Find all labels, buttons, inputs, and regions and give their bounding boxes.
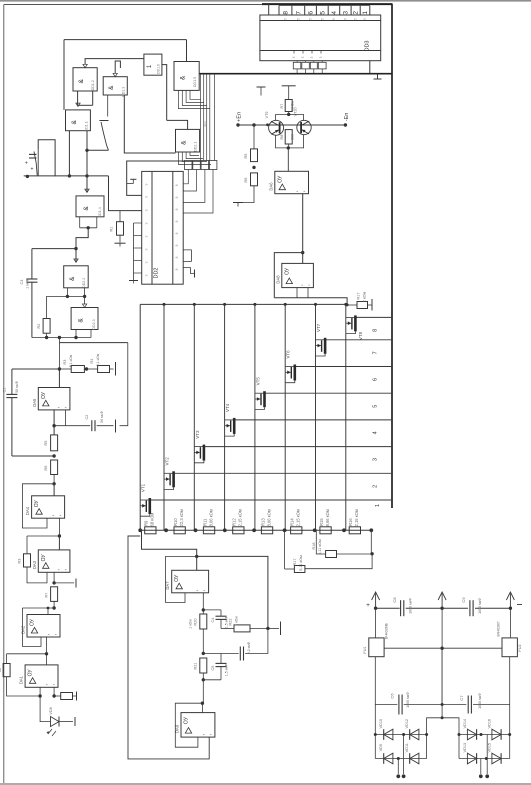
grid column wire [224,304,226,530]
OR gate DD1.6 [144,54,162,75]
resistor R9a output [54,695,61,697]
svg-text:VD10: VD10 [379,719,383,729]
svg-text:VD8: VD8 [49,707,53,714]
svg-text:DD1.6: DD1.6 [157,64,161,74]
DA7 feedback loop [166,556,197,602]
svg-text:7: 7 [295,11,302,15]
DA7 output chain [202,593,204,614]
svg-text:&: & [180,75,187,80]
wire R17 to rail [285,568,295,570]
svg-text:5: 5 [343,18,347,20]
DD3 lower band pin ticks [293,51,295,54]
gate DD2.2 outputs [66,288,68,297]
wire SA2 bottom row [87,149,109,151]
svg-text:5: 5 [363,18,367,20]
wire to DA2 [22,607,54,609]
row wire pin 8 [355,316,392,318]
DD3 left stub [268,4,270,15]
svg-text:R7: R7 [45,593,49,598]
svg-text:VT2: VT2 [165,457,170,466]
transistor VT8 [354,315,357,331]
gate DD1.1 [66,110,91,131]
capacitor C3 [31,249,33,279]
svg-text:+: + [31,167,34,173]
svg-text:6: 6 [308,11,315,15]
rectifier FU1 [375,608,377,638]
svg-text:ОУ: ОУ [28,669,34,677]
LED VD8 [40,696,50,722]
svg-text:R20: R20 [194,619,198,626]
svg-text:2,15 кОм: 2,15 кОм [238,509,243,526]
svg-text:8: 8 [175,268,179,270]
svg-text:+: + [366,602,370,609]
svg-text:&: & [78,78,85,83]
svg-text:1 кОм: 1 кОм [189,619,193,629]
svg-text:ОУ: ОУ [30,618,36,626]
svg-text:C1: C1 [3,388,7,393]
grid left rail [139,304,141,530]
junction row y337 [32,337,91,339]
resistor R4 [98,366,110,373]
transistor VT2 [172,471,175,487]
diode row junction dots [374,733,377,736]
svg-text:R7: R7 [280,104,284,109]
svg-text:DD2.2: DD2.2 [82,278,86,288]
svg-text:8,66 кОм: 8,66 кОм [325,509,330,526]
svg-text:3: 3 [301,56,305,58]
DA5 output [53,410,55,435]
svg-text:6: 6 [373,378,379,381]
svg-text:1000 мкФ: 1000 мкФ [406,692,410,708]
resistor R12 [233,527,244,534]
svg-text:8: 8 [175,232,179,234]
connector X2 right spine [391,4,393,508]
row wire pin 3 [204,446,392,448]
transistor VT5 [263,391,266,407]
PSU mid rail [384,647,502,649]
transistor VT3 [203,445,206,461]
R1 ground [119,235,121,242]
DD2 right stub to square 4 [183,170,213,214]
wire DD1.1 outputs down [68,131,70,176]
svg-text:ОУ: ОУ [277,175,283,183]
svg-text:ОУ: ОУ [34,500,40,508]
svg-text:ОУ: ОУ [41,554,47,562]
svg-text:R17: R17 [357,293,361,300]
resistor R22 row [221,627,234,629]
svg-text:8: 8 [175,208,179,210]
R4 end terminal [110,368,114,370]
DA9 output return wire [128,536,209,759]
resistor R3 [71,366,84,373]
DA9 feedback loop [175,703,202,747]
svg-text:9: 9 [145,183,149,185]
resistor R9 [145,527,156,534]
gate DD1.2 [73,68,97,91]
DA4 output [58,518,60,536]
DA4 feedback loop [22,484,54,528]
resistor R5 chain from rail [252,123,255,126]
wire to R3 R4 row [58,338,60,343]
svg-text:R3: R3 [18,559,22,564]
svg-text:DA4: DA4 [25,506,30,515]
svg-text:DD1.5: DD1.5 [193,77,197,87]
svg-text:VD14: VD14 [463,719,467,729]
svg-text:1000 мкФ: 1000 мкФ [409,598,413,614]
small link squares under DD3 [293,62,301,69]
svg-text:5: 5 [354,18,358,20]
svg-text:2 кОм: 2 кОм [363,291,367,302]
svg-text:9: 9 [145,235,149,237]
wire down-left to DD1.1 [63,40,65,110]
grid column wire [163,304,165,530]
capacitor C1 left branch [11,369,13,394]
DA5 aux pin to C2 row [64,410,66,426]
svg-text:1: 1 [362,11,369,15]
row wire pin 1 [150,499,392,501]
svg-text:C7: C7 [459,695,464,701]
svg-text:DA6: DA6 [268,182,273,191]
DD2 right stub to square 3 [183,170,205,203]
wire rail end down [370,530,372,554]
bridge step middle [441,705,443,718]
frame top grey edge [0,0,531,2]
svg-text:4: 4 [373,431,379,434]
wire En rail [238,124,345,126]
svg-text:ОУ: ОУ [284,267,290,275]
R3 R4 input row [58,343,60,369]
diode VD9 [384,753,393,764]
svg-text:R15: R15 [319,518,324,526]
svg-text:DD3: DD3 [365,40,371,51]
svg-text:ВЧ402МБ: ВЧ402МБ [385,622,389,639]
svg-text:R6: R6 [44,466,48,471]
svg-text:56 мкФ: 56 мкФ [100,411,104,423]
resistor R21 [200,658,207,673]
capacitor C2 branch [54,425,90,427]
resistor R13 [261,527,272,534]
svg-text:8: 8 [282,11,289,15]
DD2 right stub to square 1 [183,170,188,184]
svg-text:R13: R13 [260,518,265,526]
frame bottom grey edge [0,783,531,785]
svg-text:3: 3 [342,11,349,15]
sensor B1 [26,175,29,178]
link squares above DD2 [185,161,193,170]
op-amp DA4 [53,484,55,496]
wire right down x127 [120,343,128,426]
capacitor C5 [203,679,221,681]
svg-text:VT1: VT1 [141,483,146,492]
IC DD2 body [142,171,184,284]
DA8 output row to grid rail [274,298,347,305]
terminal right of R22 [268,627,279,629]
wire DD1.6 output [162,65,167,121]
wire DD1.2 top to OR gate [85,59,144,65]
DA2 output [46,637,48,665]
sensor B1 top hook wire [38,140,55,177]
svg-text:2: 2 [373,485,379,488]
svg-text:FU2: FU2 [518,644,522,651]
resistor R10 [174,527,185,534]
svg-text:C2: C2 [85,415,89,420]
wire right long loop [197,556,268,628]
diode VD16 [492,729,501,740]
svg-text:DA8: DA8 [275,275,280,284]
resistor R15 [320,527,331,534]
gate DD2.2 [64,266,88,288]
op-amp DA7 [196,556,198,570]
svg-text:VT9: VT9 [265,112,269,119]
svg-text:VD9: VD9 [379,744,383,751]
sheet frame top line [4,4,262,6]
svg-text:ОУ: ОУ [184,716,190,724]
svg-text:R14: R14 [290,518,295,526]
wire grid corner down to DA7 [140,530,197,556]
resistor R14 [291,527,302,534]
svg-text:1 кОм: 1 кОм [235,616,239,626]
transistor VT9 [269,120,284,135]
gate DD1.3 [103,77,127,95]
DD2 right stub to square 2 [183,170,196,192]
svg-text:VD12: VD12 [405,719,409,729]
op-amp DA1 [25,665,58,687]
jack T symbol below bus [257,86,266,88]
capacitor C6 row [203,653,238,655]
svg-text:VD16: VD16 [487,719,491,729]
svg-text:R10: R10 [173,518,178,526]
row wire pin 7 [325,339,392,341]
diode VD15 [492,753,501,764]
resistor R8a far left [3,664,10,677]
svg-text:R18: R18 [312,543,316,550]
svg-text:DD1.4: DD1.4 [98,207,102,217]
svg-text:5: 5 [373,405,379,408]
svg-text:VD13: VD13 [463,743,467,753]
wire to DA3 [27,535,59,537]
grid column wire [345,304,347,530]
svg-text:&: & [108,85,115,90]
DD1.5 bottom stubs tangle [178,90,209,108]
DD3 ground hook [370,61,378,79]
svg-text:VT8: VT8 [358,331,363,340]
svg-text:3: 3 [373,458,379,461]
rectifier FU2 [509,608,511,638]
svg-text:R11: R11 [202,518,207,526]
svg-text:DD1.1: DD1.1 [84,121,88,131]
svg-text:DD2.1: DD2.1 [194,142,198,152]
svg-text:R5: R5 [244,154,248,159]
IC DD3 body [260,15,381,61]
svg-text:DA2: DA2 [21,625,26,634]
svg-text:+Еп: +Еп [237,112,243,122]
svg-text:9: 9 [145,274,149,276]
svg-text:8: 8 [175,256,179,258]
PSU top rail with C8 C9 [376,607,400,609]
svg-text:VT5: VT5 [255,377,260,386]
svg-text:5: 5 [319,11,326,15]
svg-text:R3: R3 [63,360,67,365]
svg-text:5: 5 [296,18,300,20]
svg-text:R6: R6 [244,178,248,183]
svg-text:10 Ом: 10 Ом [291,100,295,111]
resistor R1 [119,211,121,222]
svg-text:5: 5 [332,18,336,20]
op-amp DA2 [47,608,49,615]
svg-text:22,3 кОм: 22,3 кОм [179,509,184,526]
DD2 left pin2 feed from link row [127,161,185,195]
svg-text:5: 5 [320,18,324,20]
emitter wires [276,135,304,148]
DA3 output [53,572,55,583]
svg-text:C9: C9 [461,597,466,603]
svg-text:7: 7 [373,351,379,354]
svg-text:1000 мкФ: 1000 мкФ [478,598,482,614]
svg-text:9: 9 [145,209,149,211]
AC input arrows [375,594,377,609]
svg-text:9: 9 [145,261,149,263]
resistor R7 between bases [275,114,277,120]
svg-text:R9: R9 [144,520,149,526]
svg-text:VT7: VT7 [316,323,321,332]
transistor VT4 [233,418,236,434]
row wire pin 4 [234,419,392,421]
grid column wire [315,304,317,530]
svg-text:DA5: DA5 [32,398,37,407]
output stubs with dots left [397,759,399,775]
diode VD14 [467,729,476,740]
DD2 bottom right terminal [183,268,194,274]
svg-text:8: 8 [175,220,179,222]
svg-text:8: 8 [175,184,179,186]
svg-text:9: 9 [145,248,149,250]
PSU second rail with C6b C7b [374,657,376,705]
op-amp DA3 [38,550,70,572]
svg-text:+: + [25,161,28,167]
resistor R3a left of DA3 [26,536,28,554]
op-amp DA5 [58,369,60,388]
svg-text:2,15 кОм: 2,15 кОм [354,509,359,526]
DA2 feedback loop [22,608,41,646]
R7 top terminal [288,86,290,100]
svg-text:8,66 кОм: 8,66 кОм [266,509,271,526]
svg-text:5: 5 [283,18,287,20]
svg-text:ОУ: ОУ [41,391,47,399]
svg-text:68 кОм: 68 кОм [150,513,155,527]
svg-text:&: & [69,276,76,281]
DD2 left T terminal [127,183,134,185]
wire DD1.4 to DD2.2 [76,228,88,249]
svg-text:R5: R5 [44,441,48,446]
svg-text:2: 2 [353,11,360,15]
DD2.1 bottom stubs [178,152,211,165]
diode rows right group [509,705,511,759]
transistor VT10 [297,120,311,134]
row wire pin 5 [265,392,393,394]
diode VD11 [410,753,419,764]
svg-text:-Еп: -Еп [344,113,350,122]
wire OR output to DD2.1 top [167,120,188,129]
svg-text:&: & [78,318,85,323]
svg-text:VT4: VT4 [225,403,230,412]
svg-text:R16: R16 [348,518,353,526]
row wire pin 2 [174,472,392,474]
svg-text:1,5 мкФ: 1,5 мкФ [225,663,229,676]
DD2 right loop rectangle [183,250,191,262]
svg-text:8: 8 [373,329,379,332]
svg-text:3: 3 [292,56,296,58]
svg-text:DA3: DA3 [32,560,37,569]
svg-text:C5: C5 [211,666,215,671]
FU boxes to second rail verticals [441,648,443,704]
resistor R6a [51,460,58,475]
wire DA6 output down [302,194,304,253]
diode rows left group [374,705,376,759]
svg-text:1: 1 [375,504,381,507]
grid column wire [254,304,256,530]
resistor R18 top right + terminal [347,304,357,306]
DD3 pin cells row [278,6,280,16]
svg-text:9: 9 [145,222,149,224]
DD1.4 gate [76,196,104,217]
svg-text:C3: C3 [20,280,24,285]
transistor VT6 [294,365,297,381]
DA1 outputs [39,687,41,696]
resistor R7a [51,587,58,602]
R6 bottom terminal [238,186,254,203]
diode VD13 [467,753,476,764]
DA3 output terminal [54,582,74,584]
svg-text:&: & [71,119,78,124]
row to R8a far left [7,653,47,655]
svg-text:FU1: FU1 [363,646,367,653]
DD1.4 output loop [79,217,81,228]
resistor R17 [294,566,305,573]
svg-text:R17: R17 [293,559,297,566]
DA8 feedback loop [274,253,302,298]
svg-text:VD15: VD15 [487,743,491,753]
heavy bus wire [199,73,392,75]
svg-text:ВЧ402КЛ: ВЧ402КЛ [497,621,501,637]
op-amp DA9 [201,702,204,705]
svg-text:DA1: DA1 [19,675,24,684]
grid top rail [140,303,347,305]
grid bottom rail [140,529,371,531]
op-amp DA6 [287,148,289,171]
bottom rail resistors R9-R16 [138,528,142,532]
svg-text:5,11 кОм: 5,11 кОм [299,555,303,571]
svg-text:R4: R4 [90,359,94,364]
grid column wire [284,304,286,530]
wire down to DD2 pin row [109,176,142,211]
bus verticals from DD1.5 to link squares [200,75,202,161]
op-amp DA8 comparator [282,263,314,287]
svg-text:2,2 мкФ: 2,2 мкФ [247,641,251,654]
svg-text:1 мкФ: 1 мкФ [25,279,29,289]
diode VD10 [384,729,393,740]
svg-text:&: & [83,206,90,211]
svg-text:VD11: VD11 [405,743,409,752]
svg-text:R22: R22 [229,619,233,626]
svg-text:&: & [181,140,188,145]
svg-text:VT3: VT3 [195,430,200,439]
capacitor C4 [203,609,221,611]
DD2 left ground rail [133,223,135,281]
svg-text:3: 3 [319,56,323,58]
svg-text:5,1 кОм: 5,1 кОм [96,353,100,366]
svg-text:DD2.3: DD2.3 [92,319,96,329]
transistor VT1 [149,498,152,514]
